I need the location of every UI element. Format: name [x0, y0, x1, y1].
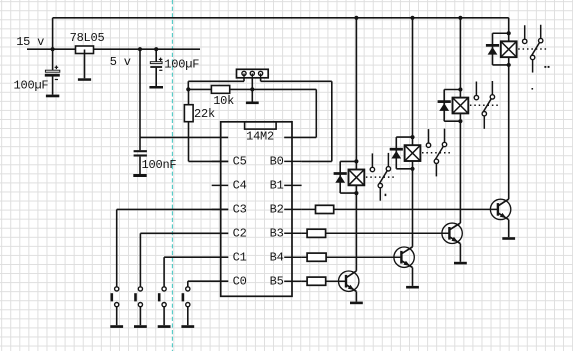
- diode D4 flyback: [486, 44, 499, 47]
- wire 22k to C5: [188, 122, 190, 162]
- wire C2 to button SW2: [140, 232, 228, 234]
- transistor Q2: [394, 247, 414, 267]
- diode D1 flyback: [334, 172, 347, 175]
- regulator U2 78L05 box: [76, 46, 94, 54]
- ground for regulator: [78, 78, 91, 81]
- pin C5 stub: [212, 160, 229, 162]
- page break dashed line: [171, 0, 173, 351]
- svg-text:C1: C1: [233, 251, 247, 265]
- node relay K4 top: [507, 31, 511, 35]
- node junction 5v-a: [138, 47, 142, 51]
- wire serial mid pin to ground: [251, 74, 253, 102]
- pin C1 stub: [212, 256, 229, 258]
- capacitor C3 100nF: [139, 137, 141, 150]
- wire 10k row: [188, 88, 316, 90]
- capacitor C2 100uF: [155, 49, 157, 62]
- node relay K2 bottom: [410, 167, 414, 171]
- pin B0 stub: [284, 160, 301, 162]
- node relay K4 bottom: [507, 63, 511, 67]
- node relay K3 bottom: [458, 119, 462, 123]
- wire C0 to button SW4: [188, 280, 228, 282]
- relay K4 coil: [501, 41, 517, 57]
- wire serial right pin to B0 riser: [260, 76, 262, 82]
- ground for SW2: [134, 325, 147, 328]
- wire relay K2 rails: [396, 136, 412, 138]
- transistor Q4: [490, 199, 510, 219]
- resistor R2 10k box: [211, 86, 229, 94]
- relay K3 contacts: [475, 82, 477, 96]
- svg-text:B4: B4: [270, 251, 284, 265]
- wire B3 to Q3 base: [302, 232, 450, 234]
- svg-text:100nF: 100nF: [142, 158, 177, 172]
- svg-text:C5: C5: [233, 155, 247, 169]
- pin B2 stub: [284, 208, 301, 210]
- node relay K2 top: [410, 135, 414, 139]
- pin C2 stub: [212, 232, 229, 234]
- wire 22k riser: [188, 89, 190, 104]
- svg-text:5 v: 5 v: [110, 55, 131, 69]
- svg-text:22k: 22k: [194, 107, 215, 121]
- switch SW1 push button: [115, 287, 119, 291]
- pin C0 stub: [212, 280, 229, 282]
- wire B2 to Q4 base: [302, 208, 498, 210]
- svg-text:C0: C0: [233, 275, 247, 289]
- ground for SW3: [158, 325, 171, 328]
- switch SW4 push button: [186, 287, 190, 291]
- node junction 15v: [51, 47, 55, 51]
- wire relay K3 rails: [444, 89, 460, 91]
- diode D3 flyback: [438, 100, 451, 103]
- dashed link K3: [470, 104, 501, 106]
- pin C3 stub: [212, 208, 229, 210]
- relay K1 contacts: [371, 153, 373, 167]
- wire relay K4 rails: [493, 32, 509, 34]
- node top-bus junction 1: [354, 16, 358, 20]
- transistor Q1: [339, 271, 359, 291]
- relay K2 contacts: [428, 129, 430, 143]
- node relay K3 top: [458, 87, 462, 91]
- dashed mark K1: [385, 194, 387, 196]
- svg-text:C3: C3: [233, 203, 247, 217]
- switch SW2 push button: [138, 287, 142, 291]
- svg-text:100µF: 100µF: [164, 58, 199, 72]
- svg-text:14M2: 14M2: [246, 130, 274, 144]
- ground for Q3: [454, 262, 467, 265]
- wire rail 1: [355, 18, 357, 271]
- svg-text:B5: B5: [270, 275, 284, 289]
- IC U1 14M2 box: [221, 122, 292, 296]
- wire 5v to IC V+ pin: [139, 49, 141, 137]
- wire rail 2: [412, 18, 414, 247]
- wire serial left pin: [243, 76, 245, 82]
- wire C1 to button SW3: [164, 256, 228, 258]
- dashed link K1: [366, 176, 397, 178]
- pin B5 stub: [284, 280, 301, 282]
- wire 5v rail: [94, 48, 201, 50]
- dashed link K4: [518, 48, 549, 50]
- wire rail 3: [459, 18, 461, 223]
- node relay K1 bottom: [354, 191, 358, 195]
- relay K1 coil: [349, 170, 365, 186]
- wire rail 4: [508, 18, 510, 199]
- transistor Q3: [442, 223, 462, 243]
- ground for Q1: [350, 302, 363, 305]
- svg-text:10k: 10k: [213, 94, 234, 108]
- wire serin riser: [315, 89, 317, 137]
- resistor R3 base resistor: [307, 277, 326, 285]
- svg-text:C4: C4: [233, 179, 247, 193]
- regulator ground tab: [84, 50, 86, 79]
- wire 15v riser: [52, 18, 54, 49]
- svg-text:B1: B1: [270, 179, 284, 193]
- wire B4 to Q2 base: [302, 256, 402, 258]
- ground for C2: [149, 86, 163, 89]
- switch SW3 push button: [162, 287, 166, 291]
- ground for Q4: [502, 237, 515, 240]
- relay K2 coil: [405, 145, 421, 161]
- svg-text:B3: B3: [270, 227, 284, 241]
- svg-text:15 v: 15 v: [16, 35, 44, 49]
- wire B5 to Q1 base: [302, 280, 346, 282]
- node top-bus junction 2: [410, 16, 414, 20]
- wire C3 to button SW1: [117, 208, 229, 210]
- pin B3 stub: [284, 232, 301, 234]
- svg-text:78L05: 78L05: [70, 31, 105, 45]
- pin B4 stub: [284, 256, 301, 258]
- dashed link K2: [422, 152, 453, 154]
- relay K4 contacts: [524, 25, 526, 39]
- svg-text:100µF: 100µF: [14, 78, 49, 92]
- resistor R4 base resistor: [307, 253, 326, 261]
- wire relay K1 rails: [340, 160, 356, 162]
- wire top rail: [53, 17, 509, 19]
- relay K3 coil: [453, 98, 469, 114]
- dashed mark K4: [544, 66, 546, 68]
- resistor R6 base resistor: [316, 205, 334, 213]
- node junction 5v-b: [154, 47, 158, 51]
- wire 15v input: [27, 48, 76, 50]
- node junction serial ground: [250, 87, 254, 91]
- svg-text:B0: B0: [270, 155, 284, 169]
- pin C4 stub: [212, 184, 229, 186]
- svg-text:C2: C2: [233, 227, 247, 241]
- node junction 22k top: [186, 87, 190, 91]
- resistor R1 22k box: [184, 105, 193, 122]
- ground for SW4: [181, 325, 194, 328]
- ground for SW1: [110, 325, 123, 328]
- resistor R5 base resistor: [307, 229, 326, 237]
- svg-text:B2: B2: [270, 203, 284, 217]
- pin B1 stub: [284, 184, 301, 186]
- node top-bus junction 3: [458, 16, 462, 20]
- ground for C3: [133, 174, 146, 177]
- ground for C1: [46, 95, 59, 98]
- capacitor C1 100uF: [52, 49, 54, 70]
- IC notch: [245, 122, 277, 129]
- ground for serial connector: [246, 102, 259, 105]
- node relay K1 top: [354, 159, 358, 163]
- ground for Q2: [406, 286, 419, 289]
- connector J1 programming header: [237, 69, 269, 78]
- diode D2 flyback: [390, 148, 403, 151]
